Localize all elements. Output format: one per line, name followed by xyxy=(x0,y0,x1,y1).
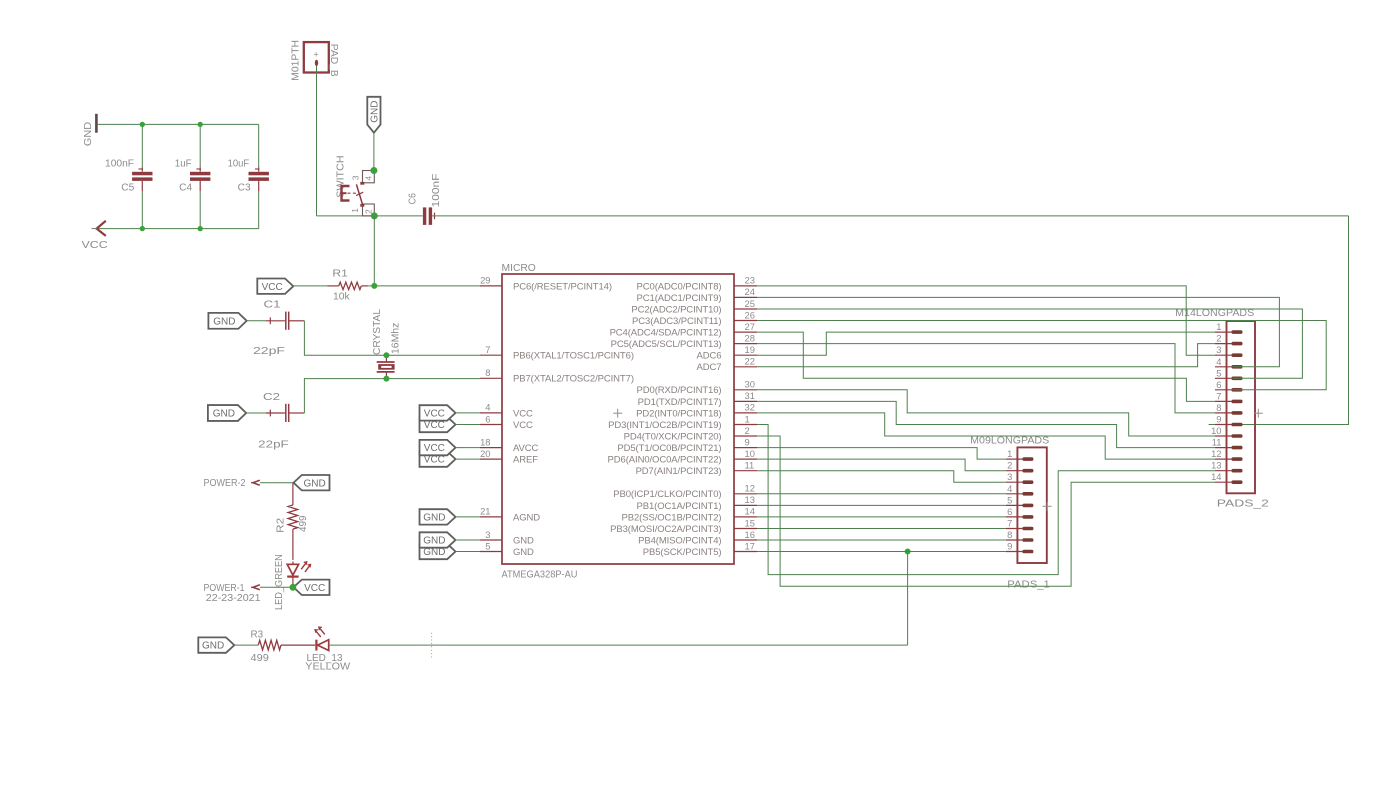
svg-text:10: 10 xyxy=(745,448,755,459)
svg-text:GND: GND xyxy=(513,547,534,558)
svg-text:POWER-2: POWER-2 xyxy=(204,478,246,489)
svg-text:31: 31 xyxy=(745,390,755,401)
pin 13 PADS_2 xyxy=(1215,470,1232,472)
svg-text:PD2(INT0/PCINT18): PD2(INT0/PCINT18) xyxy=(636,408,721,419)
svg-text:16Mhz: 16Mhz xyxy=(390,323,401,354)
svg-text:PB7(XTAL2/TOSC2/PCINT7): PB7(XTAL2/TOSC2/PCINT7) xyxy=(513,374,634,385)
svg-text:2: 2 xyxy=(1007,460,1012,471)
pin 4 PADS_2 xyxy=(1215,366,1232,368)
LED arrows xyxy=(301,563,306,570)
svg-text:10k: 10k xyxy=(333,292,350,303)
wire flag tip to pin xyxy=(456,516,481,518)
svg-text:PB5(SCK/PCINT5): PB5(SCK/PCINT5) xyxy=(643,547,722,558)
wire D2 PD2 to PADS_2 pin12 xyxy=(757,413,1215,459)
wire D12 PB4 to PADS_1 pin8 xyxy=(757,539,1006,541)
capacitor C3 xyxy=(258,124,260,167)
svg-text:PB2(SS/OC1B/PCINT2): PB2(SS/OC1B/PCINT2) xyxy=(622,512,722,523)
wire A1 PC1 to PADS_2 pin4 xyxy=(757,297,1279,366)
pin 30 PD0(RXD/PCINT16) right stub xyxy=(734,389,757,391)
svg-text:1uF: 1uF xyxy=(175,159,192,170)
svg-text:GND: GND xyxy=(213,409,235,420)
svg-text:2: 2 xyxy=(745,425,750,436)
svg-text:14: 14 xyxy=(1211,471,1221,482)
pin 5 PADS_1 xyxy=(1006,504,1023,506)
pin 5 PADS_2 xyxy=(1215,377,1232,379)
wire switch node down to reset row xyxy=(373,216,375,286)
wire D7 PD7 to PADS_1 pin3 xyxy=(757,471,1006,483)
svg-text:PB0(ICP1/CLKO/PCINT0): PB0(ICP1/CLKO/PCINT0) xyxy=(613,489,721,500)
svg-text:100nF: 100nF xyxy=(105,159,134,170)
wire POWER-2 to GND flag xyxy=(260,482,294,484)
LED arrows xyxy=(315,630,320,637)
svg-text:6: 6 xyxy=(1216,379,1221,390)
pin 32 PD2(INT0/PCINT18) right stub xyxy=(734,412,757,414)
svg-text:13: 13 xyxy=(745,494,755,505)
pin 24 PC1(ADC1/PCINT9) right stub xyxy=(734,296,757,298)
svg-text:4: 4 xyxy=(1216,356,1221,367)
pin 14 PB2(SS/OC1B/PCINT2) right stub xyxy=(734,516,757,518)
pin 3 PADS_2 xyxy=(1215,354,1232,356)
wire C1 to XTAL1 row xyxy=(304,321,480,355)
wire POWER-1 to VCC flag xyxy=(260,586,294,588)
svg-text:PC0(ADC0/PCINT8): PC0(ADC0/PCINT8) xyxy=(637,281,722,292)
svg-text:PC5(ADC5/SCL/PCINT13): PC5(ADC5/SCL/PCINT13) xyxy=(611,339,722,350)
svg-text:17: 17 xyxy=(745,540,755,551)
svg-text:AGND: AGND xyxy=(513,512,540,523)
svg-text:15: 15 xyxy=(745,517,755,528)
svg-text:AREF: AREF xyxy=(513,455,538,466)
svg-text:GND: GND xyxy=(423,536,445,547)
svg-text:PD6(AIN0/OC0A/PCINT22): PD6(AIN0/OC0A/PCINT22) xyxy=(608,455,722,466)
svg-text:C1: C1 xyxy=(264,299,281,311)
crystal Q1 CRYSTAL 16Mhz xyxy=(385,355,387,361)
resistor R2 499 xyxy=(292,483,294,505)
svg-text:9: 9 xyxy=(745,436,750,447)
svg-text:4: 4 xyxy=(485,402,490,413)
pin 2 PADS_1 xyxy=(1006,470,1023,472)
pin 12 PADS_2 xyxy=(1215,458,1232,460)
ground GND flag C2 xyxy=(208,405,246,421)
pin 23 PC0(ADC0/PCINT8) right stub xyxy=(734,285,757,287)
vcc VCC flag for R1 xyxy=(257,279,293,294)
svg-text:GND: GND xyxy=(213,316,235,327)
svg-text:8: 8 xyxy=(485,367,490,378)
junction switch pin2 xyxy=(371,212,378,219)
svg-text:ADC6: ADC6 xyxy=(697,351,722,362)
pin 1 PD3(INT1/OC2B/PCINT19) right stub xyxy=(734,424,757,426)
switch lever xyxy=(356,184,362,205)
junction D13 branch xyxy=(905,549,911,555)
svg-text:4: 4 xyxy=(1007,483,1012,494)
svg-text:100nF: 100nF xyxy=(431,174,442,208)
wire flag tip to pin xyxy=(456,551,481,553)
svg-text:22pF: 22pF xyxy=(253,345,285,357)
wire A6 ADC6 to PADS_2 pin1 xyxy=(757,332,1215,355)
svg-text:24: 24 xyxy=(745,286,755,297)
pin 21 AGND left stub xyxy=(480,516,502,518)
svg-text:1: 1 xyxy=(1007,448,1012,459)
ground GND flag pin 5 xyxy=(420,544,456,559)
connector PADS_1 M09LONGPADS xyxy=(1017,447,1046,563)
pad M01PTH PAD_B xyxy=(304,42,329,72)
pin 3 PADS_1 xyxy=(1006,481,1023,483)
svg-text:GND: GND xyxy=(423,513,445,524)
ground GND flag pin 3 xyxy=(420,532,456,547)
pin 13 PB1(OC1A/PCINT1) right stub xyxy=(734,504,757,506)
pin 7 PADS_1 xyxy=(1006,528,1023,530)
pin 10 PADS_2 xyxy=(1215,435,1232,437)
capacitor C4 xyxy=(199,124,201,167)
svg-text:12: 12 xyxy=(1211,448,1221,459)
capacitor C5 xyxy=(141,124,143,167)
svg-text:8: 8 xyxy=(1216,402,1221,413)
svg-text:GND: GND xyxy=(370,101,381,123)
svg-text:PC6(/RESET/PCINT14): PC6(/RESET/PCINT14) xyxy=(513,281,612,292)
wire A2 PC2 to PADS_2 pin5 xyxy=(757,309,1302,378)
resistor R3 499 xyxy=(234,644,258,646)
pin 26 PC3(ADC3/PCINT11) right stub xyxy=(734,320,757,322)
svg-text:YELLOW: YELLOW xyxy=(305,662,351,673)
svg-text:6: 6 xyxy=(485,413,490,424)
svg-text:C3: C3 xyxy=(238,183,252,194)
svg-text:28: 28 xyxy=(745,332,755,343)
wire flag tip to pin xyxy=(456,458,481,460)
junction crystal bottom xyxy=(383,376,389,382)
pin 1 PADS_1 xyxy=(1006,458,1023,460)
pin 28 PC5(ADC5/SCL/PCINT13) right stub xyxy=(734,343,757,345)
pin 29 PC6(/RESET/PCINT14) left stub xyxy=(480,285,502,287)
ground GND flag above switch xyxy=(367,97,380,133)
svg-text:GND: GND xyxy=(202,641,224,652)
svg-text:M14LONGPADS: M14LONGPADS xyxy=(1175,308,1254,319)
svg-text:CRYSTAL: CRYSTAL xyxy=(372,309,383,355)
wire A4 PC4 to PADS_2 pin7 xyxy=(757,332,1215,401)
wire D5 PD5 to PADS_1 pin1 xyxy=(757,448,1006,460)
junction LED anode node xyxy=(290,584,297,591)
wire D3 PD3 to PADS_2 pin13 xyxy=(757,425,1215,575)
svg-text:MICRO: MICRO xyxy=(502,263,536,274)
svg-text:M01PTH: M01PTH xyxy=(291,40,302,81)
vcc VCC flag pin 20 AREF xyxy=(420,451,456,466)
svg-text:R2: R2 xyxy=(275,518,286,533)
svg-text:5: 5 xyxy=(1007,494,1012,505)
svg-text:VCC: VCC xyxy=(424,409,445,420)
vcc VCC flag pin 6 xyxy=(420,417,456,432)
wire A3 PC3 to PADS_2 pin6 xyxy=(757,321,1326,390)
svg-text:9: 9 xyxy=(1216,414,1221,425)
svg-text:VCC: VCC xyxy=(513,420,533,431)
svg-text:+: + xyxy=(313,50,318,60)
pin 7 PADS_2 xyxy=(1215,400,1232,402)
junction crystal top xyxy=(383,352,389,358)
svg-text:PD3(INT1/OC2B/PCINT19): PD3(INT1/OC2B/PCINT19) xyxy=(608,420,721,431)
svg-text:21: 21 xyxy=(480,506,490,517)
ic U1 MICRO ATMEGA328P-AU xyxy=(502,274,734,564)
svg-text:R1: R1 xyxy=(332,269,348,280)
resistor R1 10k xyxy=(293,285,327,287)
ground GND flag POWER-2 xyxy=(294,475,330,490)
svg-text:22-23-2021: 22-23-2021 xyxy=(206,593,261,604)
svg-text:16: 16 xyxy=(745,529,755,540)
svg-text:499: 499 xyxy=(298,516,309,533)
svg-text:M09LONGPADS: M09LONGPADS xyxy=(970,436,1049,447)
LED LED_13 YELLOW xyxy=(315,640,317,651)
svg-text:VCC: VCC xyxy=(304,583,325,594)
svg-text:ATMEGA328P-AU: ATMEGA328P-AU xyxy=(502,570,578,581)
svg-text:7: 7 xyxy=(1216,390,1221,401)
pin 9 PADS_1 xyxy=(1006,551,1023,553)
svg-text:PB4(MISO/PCINT4): PB4(MISO/PCINT4) xyxy=(638,535,721,546)
pin 19 ADC6 right stub xyxy=(734,354,757,356)
svg-text:AVCC: AVCC xyxy=(513,443,539,454)
pin 8 PADS_1 xyxy=(1006,539,1023,541)
svg-text:PB3(MOSI/OC2A/PCINT3): PB3(MOSI/OC2A/PCINT3) xyxy=(610,524,721,535)
wire D8 PB0 to PADS_1 pin4 xyxy=(757,493,1006,495)
svg-text:PADS_2: PADS_2 xyxy=(1217,499,1269,510)
svg-text:VCC: VCC xyxy=(82,239,109,251)
wire DTR net C6 to PADS_2 pin 9 xyxy=(432,215,1348,217)
wire D6 PD6 to PADS_1 pin2 xyxy=(757,459,1006,471)
svg-text:PD7(AIN1/PCINT23): PD7(AIN1/PCINT23) xyxy=(636,466,722,477)
svg-text:29: 29 xyxy=(480,275,490,286)
svg-text:PD5(T1/OC0B/PCINT21): PD5(T1/OC0B/PCINT21) xyxy=(617,443,721,454)
pin 4 PADS_1 xyxy=(1006,493,1023,495)
pin 6 PADS_1 xyxy=(1006,516,1023,518)
svg-text:25: 25 xyxy=(745,298,755,309)
vcc VCC arrow symbol xyxy=(97,221,106,236)
svg-text:22pF: 22pF xyxy=(258,439,289,451)
svg-text:3: 3 xyxy=(351,175,361,180)
svg-text:GND: GND xyxy=(82,121,94,146)
wire D13 vertical branch xyxy=(907,552,909,646)
pin 18 AVCC left stub xyxy=(480,447,502,449)
wire D13 PB5 to PADS_1 pin9 xyxy=(757,551,1006,553)
wire D4 PD4 to PADS_2 pin14 xyxy=(757,436,1215,586)
wire D0 PD0 to PADS_2 pin10 xyxy=(757,390,1215,436)
pin 2 PADS_2 xyxy=(1215,343,1232,345)
pin 20 AREF left stub xyxy=(480,458,502,460)
svg-text:32: 32 xyxy=(745,402,755,413)
svg-text:C2: C2 xyxy=(263,391,280,403)
svg-text:PD0(RXD/PCINT16): PD0(RXD/PCINT16) xyxy=(637,385,722,396)
svg-text:27: 27 xyxy=(745,321,755,332)
pin 14 PADS_2 xyxy=(1215,481,1232,483)
svg-text:1: 1 xyxy=(350,208,360,213)
svg-text:10uF: 10uF xyxy=(228,159,250,170)
pin 11 PD7(AIN1/PCINT23) right stub xyxy=(734,470,757,472)
wire A7 ADC7 to PADS_2 pin2 xyxy=(757,344,1215,367)
origin cross PADS_1 xyxy=(1043,505,1052,507)
svg-text:4: 4 xyxy=(364,176,374,181)
pin 8 PB7(XTAL2/TOSC2/PCINT7) left stub xyxy=(480,377,502,379)
svg-text:499: 499 xyxy=(251,653,269,664)
origin cross MICRO xyxy=(613,412,622,414)
wire GND flag to switch pin 4 xyxy=(373,133,375,171)
svg-text:30: 30 xyxy=(745,379,755,390)
connector PADS_2 M14LONGPADS xyxy=(1227,321,1256,493)
wire flag tip to pin xyxy=(456,447,481,449)
pin 7 PB6(XTAL1/TOSC1/PCINT6) left stub xyxy=(480,354,502,356)
svg-text:LED_GREEN: LED_GREEN xyxy=(274,554,285,610)
svg-text:VCC: VCC xyxy=(424,455,445,466)
wire C2 to XTAL2 row xyxy=(304,379,480,413)
svg-text:8: 8 xyxy=(1007,529,1012,540)
svg-text:C5: C5 xyxy=(121,183,135,194)
svg-text:ADC7: ADC7 xyxy=(697,362,722,373)
switch actuator bracket xyxy=(342,186,350,201)
junction dots on rails xyxy=(140,122,145,127)
svg-text:PB6(XTAL1/TOSC1/PCINT6): PB6(XTAL1/TOSC1/PCINT6) xyxy=(513,351,634,362)
pin 5 GND left stub xyxy=(480,551,502,553)
svg-text:19: 19 xyxy=(745,344,755,355)
vcc VCC flag pin 18 AVCC xyxy=(420,440,456,455)
svg-text:9: 9 xyxy=(1007,541,1012,552)
svg-text:3: 3 xyxy=(1216,344,1221,355)
svg-text:C6: C6 xyxy=(407,193,418,205)
svg-text:12: 12 xyxy=(745,483,755,494)
svg-text:10: 10 xyxy=(1211,425,1221,436)
svg-text:GND: GND xyxy=(513,535,534,546)
svg-text:5: 5 xyxy=(1216,367,1221,378)
svg-text:11: 11 xyxy=(745,460,755,471)
pin 6 VCC left stub xyxy=(480,424,502,426)
wire flag tip to pin xyxy=(456,424,481,426)
pin 10 PD6(AIN0/OC0A/PCINT22) right stub xyxy=(734,458,757,460)
pin 1 PADS_2 xyxy=(1215,331,1232,333)
wire D11 PB3 to PADS_1 pin7 xyxy=(757,528,1006,530)
svg-text:22: 22 xyxy=(745,356,755,367)
pin 15 PB3(MOSI/OC2A/PCINT3) right stub xyxy=(734,528,757,530)
svg-text:GND: GND xyxy=(304,478,326,489)
svg-text:11: 11 xyxy=(1212,437,1222,448)
svg-text:13: 13 xyxy=(1211,460,1221,471)
junction switch pin4 xyxy=(370,167,377,174)
pin 27 PC4(ADC4/SDA/PCINT12) right stub xyxy=(734,331,757,333)
pin 9 PD5(T1/OC0B/PCINT21) right stub xyxy=(734,447,757,449)
svg-text:26: 26 xyxy=(745,309,755,320)
wire GND top rail xyxy=(98,123,259,125)
svg-text:18: 18 xyxy=(480,436,490,447)
svg-text:GND: GND xyxy=(423,547,445,558)
wire VCC bottom rail xyxy=(98,228,259,230)
ground GND flag pin 21 AGND xyxy=(420,509,456,524)
svg-text:C4: C4 xyxy=(179,183,193,194)
capacitor C6 100nF xyxy=(423,207,426,225)
svg-text:VCC: VCC xyxy=(424,420,445,431)
svg-text:PC3(ADC3/PCINT11): PC3(ADC3/PCINT11) xyxy=(632,316,721,327)
svg-text:PD4(T0/XCK/PCINT20): PD4(T0/XCK/PCINT20) xyxy=(624,431,722,442)
wire flag tip to pin xyxy=(456,539,481,541)
wire flag tip to pin xyxy=(456,412,481,414)
svg-text:PD1(TXD/PCINT17): PD1(TXD/PCINT17) xyxy=(638,397,722,408)
svg-text:7: 7 xyxy=(485,344,490,355)
svg-text:PC1(ADC1/PCINT9): PC1(ADC1/PCINT9) xyxy=(637,293,722,304)
pin 16 PB4(MISO/PCINT4) right stub xyxy=(734,539,757,541)
pin 4 VCC left stub xyxy=(480,412,502,414)
svg-text:PB1(OC1A/PCINT1): PB1(OC1A/PCINT1) xyxy=(637,501,722,512)
svg-text:23: 23 xyxy=(745,275,755,286)
vcc VCC flag pin 4 xyxy=(420,405,456,420)
svg-text:VCC: VCC xyxy=(262,282,283,293)
svg-text:3: 3 xyxy=(485,529,490,540)
junction reset node xyxy=(371,283,377,289)
svg-text:20: 20 xyxy=(480,448,490,459)
svg-text:2: 2 xyxy=(1216,333,1221,344)
svg-text:7: 7 xyxy=(1007,518,1012,529)
svg-text:VCC: VCC xyxy=(424,443,445,454)
pin 11 PADS_2 xyxy=(1215,447,1232,449)
svg-text:1: 1 xyxy=(745,413,750,424)
pin 12 PB0(ICP1/CLKO/PCINT0) right stub xyxy=(734,493,757,495)
wire D1 PD1 to PADS_2 pin11 xyxy=(757,401,1215,447)
wire switch row xyxy=(374,215,422,217)
svg-text:5: 5 xyxy=(485,540,490,551)
pin 31 PD1(TXD/PCINT17) right stub xyxy=(734,400,757,402)
pin 8 PADS_2 xyxy=(1215,412,1232,414)
pin 22 ADC7 right stub xyxy=(734,366,757,368)
wire A0 PC0 to PADS_2 pin3 xyxy=(757,286,1215,355)
wire pad to switch row xyxy=(316,66,318,216)
origin cross PADS_2 xyxy=(1254,412,1263,414)
ground GND flag C1 xyxy=(208,313,246,329)
pin 6 PADS_2 xyxy=(1215,389,1232,391)
pin 9 PADS_2 xyxy=(1215,424,1232,426)
svg-text:3: 3 xyxy=(1007,471,1012,482)
wire LED_13 to D13 net xyxy=(329,644,908,646)
svg-text:PADS_1: PADS_1 xyxy=(1007,580,1050,591)
wire D10 PB2 to PADS_1 pin6 xyxy=(757,516,1006,518)
svg-text:14: 14 xyxy=(745,506,755,517)
wire D9 PB1 to PADS_1 pin5 xyxy=(757,504,1006,506)
dashed frame cross marker xyxy=(431,633,433,659)
svg-text:PAD_B: PAD_B xyxy=(328,44,339,77)
LED LED_GREEN xyxy=(287,564,298,575)
pin 2 PD4(T0/XCK/PCINT20) right stub xyxy=(734,435,757,437)
svg-text:PC4(ADC4/SDA/PCINT12): PC4(ADC4/SDA/PCINT12) xyxy=(610,328,722,339)
svg-text:VCC: VCC xyxy=(513,408,533,419)
vcc VCC flag POWER-1 xyxy=(294,580,330,595)
pin 17 PB5(SCK/PCINT5) right stub xyxy=(734,551,757,553)
svg-text:6: 6 xyxy=(1007,506,1012,517)
svg-text:PC2(ADC2/PCINT10): PC2(ADC2/PCINT10) xyxy=(631,304,721,315)
pin 3 GND left stub xyxy=(480,539,502,541)
svg-text:R3: R3 xyxy=(251,629,264,640)
pin 25 PC2(ADC2/PCINT10) right stub xyxy=(734,308,757,310)
wire A5 PC5 to PADS_2 pin8 xyxy=(757,344,1215,413)
svg-text:1: 1 xyxy=(1216,321,1221,332)
ground GND flag LED row xyxy=(198,637,234,652)
